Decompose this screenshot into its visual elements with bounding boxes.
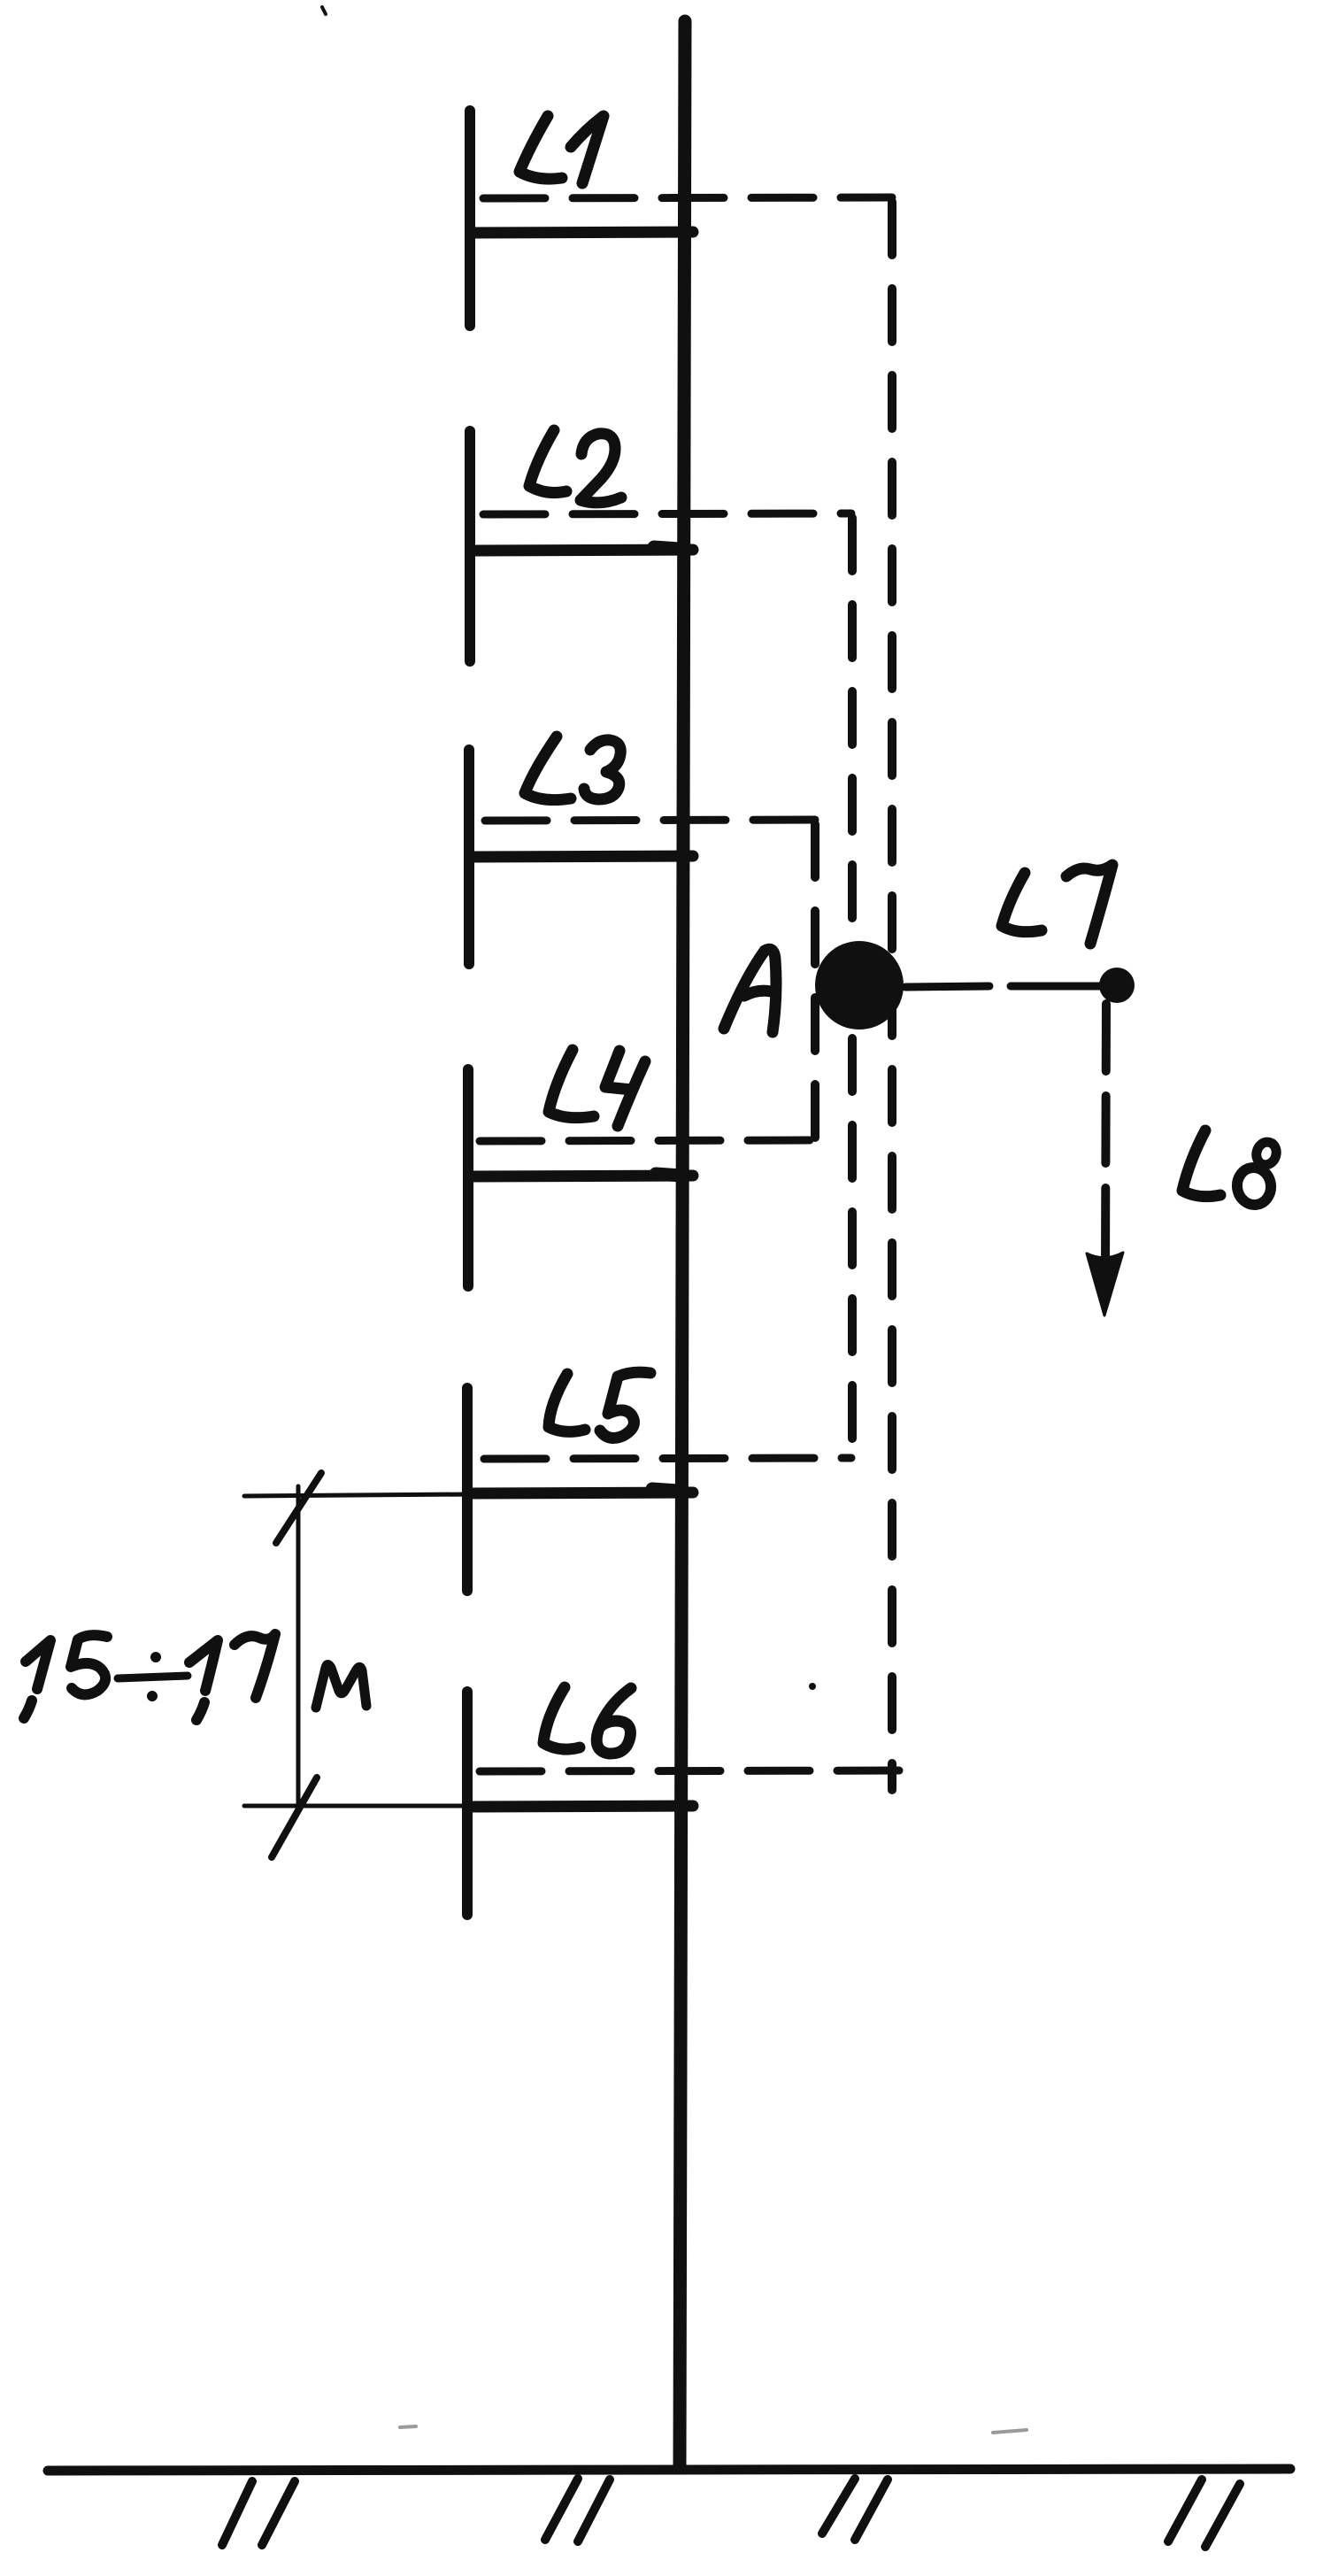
left dashed guide vertical segment 4	[463, 1069, 473, 1286]
ground hatch pair 2	[545, 2479, 610, 2541]
left dashed guide vertical segment 2	[465, 431, 475, 661]
dashed level line L2	[483, 513, 851, 514]
dimension extension line top	[244, 1494, 472, 1496]
dashed drop vertical from L1 to L6	[888, 202, 896, 1790]
ink blob at right end of rung L2	[654, 547, 680, 549]
rung L3	[472, 856, 693, 857]
label L5	[549, 1374, 585, 1431]
rung L2	[473, 550, 693, 551]
label L2	[529, 430, 566, 493]
arrowhead of L8	[1087, 1253, 1123, 1315]
label L8	[1182, 1130, 1220, 1197]
dimension text m (metres)	[316, 1665, 366, 1708]
wire L7 horizontal from node A	[905, 986, 1107, 987]
dimension extension line bottom	[244, 1804, 472, 1809]
ink blob at right end of rung L4	[656, 1174, 681, 1176]
dimension tick slash top	[276, 1473, 321, 1543]
dimension vertical line	[296, 1486, 301, 1803]
ground hatch pair 4	[1168, 2480, 1240, 2547]
scan speck top left	[322, 7, 326, 14]
dashed level line L4	[480, 1140, 814, 1141]
node dot at end of L7	[1099, 968, 1135, 1003]
label L4	[549, 1050, 594, 1118]
scan speck near L6 label	[809, 1683, 816, 1690]
dashed drop vertical from L3 to L4	[811, 824, 819, 1144]
ink blob at right end of rung L5	[652, 1489, 678, 1491]
left dashed guide vertical segment 1	[465, 111, 475, 326]
left dashed guide vertical segment 5	[462, 1388, 473, 1591]
left dashed guide vertical segment 3	[464, 750, 474, 964]
dashed level line L1	[483, 197, 892, 198]
ground line	[48, 2469, 1290, 2471]
dashed level line L5	[484, 1458, 851, 1459]
rung L1	[473, 232, 693, 233]
dimension text 1,5 div 1,7	[24, 1640, 50, 1718]
faint scan mark left of mast above ground	[400, 2426, 416, 2427]
dashed drop vertical from L2 to L5	[848, 518, 857, 1462]
ground hatch pair 3	[822, 2479, 888, 2540]
node A big dot	[815, 941, 904, 1030]
rung L6	[471, 1806, 693, 1807]
rung L4	[472, 1176, 693, 1176]
dashed arrow L8 shaft	[1105, 1004, 1106, 1268]
label L6	[543, 1687, 580, 1749]
faint scan mark right of mast above ground	[993, 2430, 1027, 2433]
left dashed guide vertical segment 6	[462, 1692, 473, 1915]
label L1	[519, 116, 562, 179]
dimension tick slash bottom	[272, 1778, 317, 1857]
dashed level line L6	[480, 1770, 926, 1771]
ground hatch pair 1	[222, 2481, 295, 2545]
rung L5	[471, 1492, 693, 1493]
label L7	[1002, 873, 1042, 932]
mast (main vertical pole)	[680, 21, 685, 2468]
label L3	[525, 737, 571, 800]
dashed level line L3	[485, 820, 816, 821]
label A	[724, 949, 776, 1032]
